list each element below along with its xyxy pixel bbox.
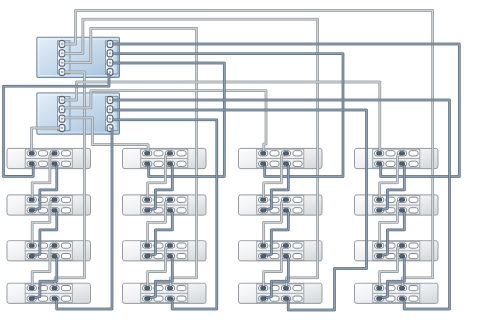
disk shelf col1 row4 xyxy=(7,283,91,303)
connector plug col4 row2 port B1 xyxy=(377,209,382,212)
connector plug col4 row3 port B1 xyxy=(377,254,382,257)
connector plug col1 row1 port B3 xyxy=(52,162,57,165)
cable C1 HBA-R port1 to shelf col4 row1 IOM-A xyxy=(114,44,460,177)
disk shelf col2 row1 xyxy=(123,148,207,168)
connector plug col3 row3 port T3 xyxy=(283,244,288,247)
connector plug col4 row3 port T1 xyxy=(377,244,382,247)
cable shelf col3 row1 IOM-B to row2 IOM-B xyxy=(264,154,285,200)
controller 2 left HBA port 3 connector xyxy=(59,115,65,122)
controller 2 left HBA port 2 connector xyxy=(59,106,65,113)
cable shelf col4 row2 IOM-A to row3 IOM-A xyxy=(380,211,404,256)
controller 1 left HBA port 1 connector xyxy=(59,41,65,48)
connector plug col3 row4 port T3 xyxy=(283,286,288,289)
disk shelf col4 row2 xyxy=(355,195,439,215)
controller 2 left HBA port 4 connector xyxy=(59,125,65,132)
controller 2 right HBA slot xyxy=(106,97,119,131)
cable shelf col3 row3 IOM-A to row4 IOM-A xyxy=(264,256,288,298)
controller 1 left HBA slot xyxy=(58,41,71,74)
disk shelf col3 row4 xyxy=(239,283,323,303)
connector plug col1 row2 port B3 xyxy=(52,209,57,212)
connector plug col4 row4 port T3 xyxy=(399,286,404,289)
disk shelf col1 row1 xyxy=(7,148,91,168)
connector plug col1 row4 port B3 xyxy=(52,297,57,300)
disk shelf col1 row3 xyxy=(7,241,91,261)
controller 2 left HBA port 1 connector xyxy=(59,97,65,104)
connector plug col2 row3 port T3 xyxy=(167,244,172,247)
disk shelf col1 row2 xyxy=(7,195,91,215)
cable C2 HBA-R port2 to shelf col3 row4 IOM-A xyxy=(114,110,367,310)
controller 1 right HBA port 4 connector xyxy=(107,69,113,76)
cable shelf col1 row1 IOM-A to row2 IOM-A xyxy=(33,164,57,210)
disk shelf col3 row2 xyxy=(239,195,323,215)
cable shelf col2 row1 IOM-B to row2 IOM-B xyxy=(148,154,169,200)
connector plug col1 row2 port T3 xyxy=(52,198,57,201)
connector plug col4 row4 port B3 xyxy=(399,297,404,300)
cable C1 HBA-R port3 to shelf col2 row1 IOM-A xyxy=(114,63,225,177)
cable C2 HBA-L port3 to shelf col2 row1 IOM-B xyxy=(65,118,148,154)
connector plug col4 row2 port T3 xyxy=(399,198,404,201)
disk shelf col4 row3 xyxy=(355,241,439,261)
connector plug col2 row1 port B1 xyxy=(145,162,150,165)
connector plug col3 row2 port T3 xyxy=(283,198,288,201)
controller 1 right HBA slot xyxy=(106,41,119,74)
cable shelf col4 row3 IOM-A to row4 IOM-A xyxy=(380,256,404,298)
connector plug col4 row2 port B3 xyxy=(399,209,404,212)
connector plug col3 row1 port T3 xyxy=(283,152,288,155)
cable C2 HBA-L port4 to shelf col1 row1 IOM-B xyxy=(32,128,60,153)
connector plug col2 row3 port B1 xyxy=(145,254,150,257)
connector plug col1 row3 port T1 xyxy=(29,244,34,247)
cable shelf col3 row3 IOM-B to row4 IOM-B xyxy=(264,246,285,288)
connector plug col2 row2 port T3 xyxy=(167,198,172,201)
connector plug col2 row1 port T3 xyxy=(167,152,172,155)
controller 1 left HBA port 3 connector xyxy=(59,59,65,66)
connector plug col3 row3 port T1 xyxy=(261,244,266,247)
cable shelf col2 row2 IOM-A to row3 IOM-A xyxy=(148,211,172,256)
cable C1 HBA-L port2 to shelf col3 row4 IOM-B xyxy=(65,19,318,288)
connector plug col2 row4 port B3 xyxy=(167,297,172,300)
cable shelf col1 row2 IOM-A to row3 IOM-A xyxy=(33,211,57,256)
disk shelf col2 row4 xyxy=(123,283,207,303)
controller 2 right HBA port 3 connector xyxy=(107,115,113,122)
controller 1 right HBA port 1 connector xyxy=(107,41,113,48)
cable shelf col1 row1 IOM-B to row2 IOM-B xyxy=(32,154,53,200)
cable C1 HBA-L port4 to shelf col1 row4 IOM-B xyxy=(55,72,84,288)
connector plug col2 row3 port T1 xyxy=(145,244,150,247)
cable shelf col4 row1 IOM-A to row2 IOM-A xyxy=(380,164,404,210)
connector plug col4 row4 port T1 xyxy=(377,286,382,289)
connector plug col3 row1 port B1 xyxy=(261,162,266,165)
cable C1 HBA-R port4 to shelf col1 row1 IOM-A xyxy=(4,75,110,177)
connector plug col2 row1 port T1 xyxy=(145,152,150,155)
cable C2 HBA-L port1 to shelf col4 row1 IOM-B xyxy=(65,82,380,153)
controller 1 left HBA port 4 connector xyxy=(59,69,65,76)
connector plug col1 row4 port T3 xyxy=(52,286,57,289)
controller 1 right HBA port 3 connector xyxy=(107,59,113,66)
cable shelf col1 row2 IOM-B to row3 IOM-B xyxy=(32,200,53,246)
connector plug col4 row4 port B1 xyxy=(377,297,382,300)
connector plug col3 row2 port T1 xyxy=(261,198,266,201)
connector plug col1 row3 port B3 xyxy=(52,254,57,257)
connector plug col2 row2 port B1 xyxy=(145,209,150,212)
controller 1 chassis xyxy=(37,37,120,77)
cable shelf col3 row2 IOM-B to row3 IOM-B xyxy=(264,200,285,246)
cable shelf col2 row1 IOM-A to row2 IOM-A xyxy=(148,164,172,210)
cable shelf col3 row2 IOM-A to row3 IOM-A xyxy=(264,211,288,256)
cable shelf col3 row1 IOM-A to row2 IOM-A xyxy=(264,164,288,210)
connector plug col3 row2 port B3 xyxy=(283,209,288,212)
connector plug col4 row3 port T3 xyxy=(399,244,404,247)
connector plug col1 row4 port T1 xyxy=(29,286,34,289)
cable C2 HBA-L port2 to shelf col3 row1 IOM-B xyxy=(65,91,266,154)
connector plug col3 row1 port B3 xyxy=(283,162,288,165)
cable shelf col4 row2 IOM-B to row3 IOM-B xyxy=(380,200,401,246)
connector plug col2 row4 port B1 xyxy=(145,297,150,300)
connector plug col3 row4 port B1 xyxy=(261,297,266,300)
controller 2 chassis xyxy=(37,93,120,134)
controller 2 left HBA slot xyxy=(58,97,71,131)
cable shelf col1 row3 IOM-A to row4 IOM-A xyxy=(33,256,57,298)
connector plug col4 row1 port T1 xyxy=(377,152,382,155)
connector plug col3 row3 port B3 xyxy=(283,254,288,257)
cable C2 HBA-R port3 to shelf col2 row4 IOM-A xyxy=(114,120,217,309)
connector plug col1 row1 port B1 xyxy=(29,162,34,165)
connector plug col4 row1 port T3 xyxy=(399,152,404,155)
cable C1 HBA-R port2 to shelf col3 row1 IOM-A xyxy=(114,54,344,177)
connector plug col4 row1 port B1 xyxy=(377,162,382,165)
cable shelf col4 row3 IOM-B to row4 IOM-B xyxy=(380,246,401,288)
connector plug col1 row4 port B1 xyxy=(29,297,34,300)
connector plug col3 row4 port T1 xyxy=(261,286,266,289)
connector plug col3 row4 port B3 xyxy=(283,297,288,300)
connector plug col1 row3 port T3 xyxy=(52,244,57,247)
disk shelf col4 row4 xyxy=(355,283,439,303)
connector plug col2 row1 port B3 xyxy=(167,162,172,165)
disk shelf col2 row3 xyxy=(123,241,207,261)
connector plug col2 row2 port B3 xyxy=(167,209,172,212)
cable C2 HBA-R port4 to shelf col1 row4 IOM-A xyxy=(57,130,112,310)
connector plug col4 row3 port B3 xyxy=(399,254,404,257)
cable shelf col1 row3 IOM-B to row4 IOM-B xyxy=(32,246,53,288)
connector plug col1 row1 port T1 xyxy=(29,152,34,155)
disk shelf col2 row2 xyxy=(123,195,207,215)
cable shelf col2 row3 IOM-B to row4 IOM-B xyxy=(148,246,169,288)
cable shelf col2 row3 IOM-A to row4 IOM-A xyxy=(148,256,172,298)
connector plug col3 row1 port T1 xyxy=(261,152,266,155)
connector plug col2 row4 port T3 xyxy=(167,286,172,289)
cable C2 HBA-R port1 to shelf col4 row4 IOM-A xyxy=(114,100,450,309)
connector plug col1 row2 port T1 xyxy=(29,198,34,201)
connector plug col3 row2 port B1 xyxy=(261,209,266,212)
connector plug col3 row3 port B1 xyxy=(261,254,266,257)
cable C1 HBA-L port1 to shelf col4 row4 IOM-B xyxy=(65,11,433,289)
disk shelf col4 row1 xyxy=(355,148,439,168)
controller 2 right HBA port 1 connector xyxy=(107,97,113,104)
connector plug col4 row2 port T1 xyxy=(377,198,382,201)
disk shelf col3 row3 xyxy=(239,241,323,261)
cable shelf col2 row2 IOM-B to row3 IOM-B xyxy=(148,200,169,246)
connector plug col1 row3 port B1 xyxy=(29,254,34,257)
connector plug col1 row1 port T3 xyxy=(52,152,57,155)
controller 2 right HBA port 4 connector xyxy=(107,125,113,132)
connector plug col2 row2 port T1 xyxy=(145,198,150,201)
cable shelf col4 row1 IOM-B to row2 IOM-B xyxy=(380,154,401,200)
controller 1 left HBA port 2 connector xyxy=(59,50,65,57)
disk shelf col3 row1 xyxy=(239,148,323,168)
cable C1 HBA-L port3 to shelf col2 row4 IOM-B xyxy=(65,28,197,288)
connector plug col4 row1 port B3 xyxy=(399,162,404,165)
connector plug col2 row3 port B3 xyxy=(167,254,172,257)
controller 2 right HBA port 2 connector xyxy=(107,106,113,113)
connector plug col2 row4 port T1 xyxy=(145,286,150,289)
controller 1 right HBA port 2 connector xyxy=(107,50,113,57)
connector plug col1 row2 port B1 xyxy=(29,209,34,212)
